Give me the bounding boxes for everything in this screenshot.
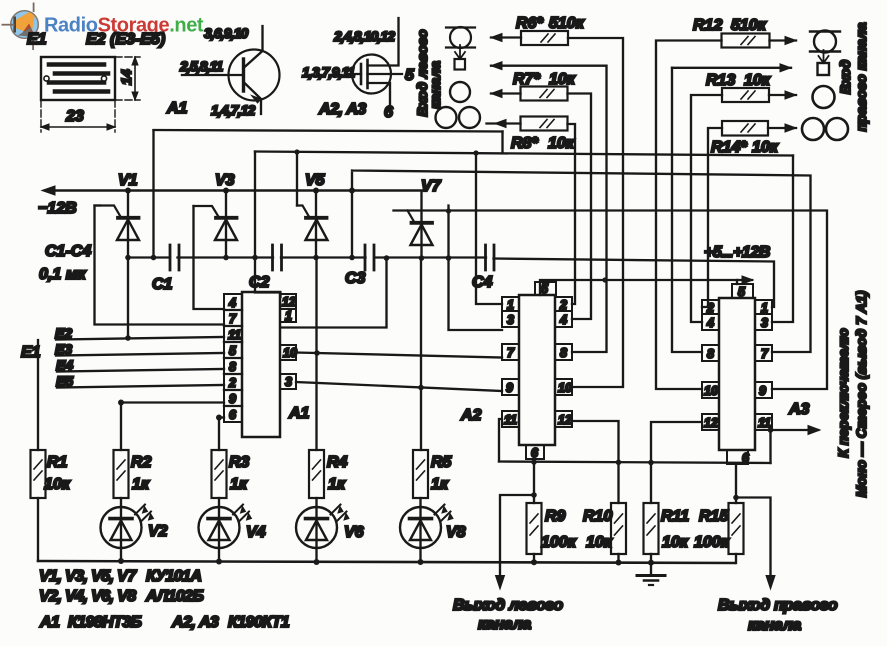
svg-text:А2: А2 bbox=[460, 407, 482, 424]
wire V5 gate up to line y151 bbox=[296, 152, 298, 206]
right input: microphone jack symbol bbox=[814, 31, 836, 53]
wire E3 to pin 5 bbox=[56, 353, 224, 356]
svg-text:R9: R9 bbox=[545, 508, 566, 525]
svg-text:V1: V1 bbox=[118, 172, 138, 189]
left input: tape recorder symbol (two circles) bbox=[436, 107, 457, 128]
wire E4 to pin 8 bbox=[57, 369, 224, 372]
A2,A3 substrate lead pin 6 bbox=[368, 83, 391, 108]
svg-text:А2, А3: А2, А3 bbox=[171, 614, 219, 631]
dimension line 23 bbox=[41, 126, 115, 128]
svg-text:R2: R2 bbox=[131, 454, 152, 471]
dimension extension lines (bottom) bbox=[41, 100, 115, 132]
svg-text:510к: 510к bbox=[549, 15, 585, 32]
resistor R7 bbox=[521, 87, 568, 101]
wire middle input left channel with arrow bbox=[491, 66, 607, 352]
svg-text:7: 7 bbox=[229, 312, 237, 326]
svg-text:С1-С4: С1-С4 bbox=[45, 243, 91, 260]
svg-text:канала: канала bbox=[748, 617, 801, 634]
svg-text:Е2 (Е3-Е5): Е2 (Е3-Е5) bbox=[86, 31, 165, 48]
svg-text:А3: А3 bbox=[788, 401, 810, 418]
wire R12 left bbox=[656, 41, 722, 390]
wire A2 pin12 to R10 bbox=[572, 421, 619, 503]
svg-text:С4: С4 bbox=[472, 274, 493, 291]
wire R14 left bbox=[702, 128, 722, 307]
svg-text:А1: А1 bbox=[39, 614, 60, 631]
svg-text:6: 6 bbox=[742, 451, 750, 465]
wire R8 right bbox=[568, 124, 576, 304]
svg-text:8: 8 bbox=[229, 360, 236, 374]
node on line y151 at V5 gate bbox=[294, 149, 299, 154]
transistor A1 collector bbox=[244, 26, 263, 68]
svg-text:1к: 1к bbox=[230, 476, 248, 493]
svg-text:канала: канала bbox=[478, 616, 531, 633]
IC A2 top pin cell 5 bbox=[535, 282, 556, 295]
right input: pickup symbol bbox=[819, 50, 829, 63]
LED V6 bbox=[296, 507, 337, 548]
svg-text:1,3,7,9,11: 1,3,7,9,11 bbox=[302, 64, 355, 80]
IC A3 top pin cell 5 bbox=[732, 284, 753, 298]
wire V3 gate from A1 pin4 bbox=[194, 206, 225, 309]
svg-text:12: 12 bbox=[704, 416, 718, 430]
svg-text:Выход левого: Выход левого bbox=[453, 597, 563, 614]
svg-text:С3: С3 bbox=[345, 270, 366, 287]
svg-text:0,1 мк: 0,1 мк bbox=[39, 266, 87, 283]
wire A1 pin 10 to A2 pin 7 bbox=[296, 353, 502, 358]
svg-text:К190КТ1: К190КТ1 bbox=[228, 614, 290, 631]
wire R7 right bbox=[568, 94, 592, 320]
IC A2 right pin cells bbox=[555, 297, 572, 311]
svg-text:4: 4 bbox=[706, 316, 714, 330]
wire H2 (-12V feed to A3 pin7) bbox=[352, 171, 811, 353]
svg-text:R11: R11 bbox=[661, 508, 689, 525]
svg-text:правого канала: правого канала bbox=[853, 22, 869, 131]
resistor R13 bbox=[722, 88, 769, 102]
svg-text:R14*: R14* bbox=[711, 139, 747, 156]
svg-text:10к: 10к bbox=[586, 534, 613, 551]
wire E2 to pin 11 bbox=[56, 337, 224, 340]
wire R8 input with arrow bbox=[487, 122, 521, 124]
svg-text:23: 23 bbox=[65, 108, 84, 125]
transistor A1 pinout circle bbox=[229, 50, 280, 101]
svg-text:V3: V3 bbox=[215, 172, 235, 189]
op-amp/IC A1 body bbox=[242, 292, 280, 437]
wire drop to A2 pin3 bbox=[449, 206, 503, 331]
LED V8 bbox=[400, 507, 441, 548]
svg-text:100к: 100к bbox=[694, 534, 730, 551]
capacitor bus wire bbox=[128, 256, 486, 258]
svg-text:R13: R13 bbox=[706, 72, 735, 89]
IC A3 right pin cells bbox=[755, 300, 772, 314]
svg-text:Выход правого: Выход правого bbox=[718, 597, 838, 614]
wire V1 gate to A1 pin11 bbox=[95, 206, 225, 325]
photoresistor terminal holes bbox=[44, 76, 49, 81]
transistor A1 base bar bbox=[242, 59, 245, 91]
A2,A3 drain lead up bbox=[368, 18, 399, 66]
svg-text:100к: 100к bbox=[541, 534, 577, 551]
svg-text:R7*: R7* bbox=[513, 71, 540, 88]
IC A2 left pin cells bbox=[502, 297, 519, 311]
dimension extension lines (right) bbox=[115, 57, 140, 100]
left input: microphone jack symbol bbox=[450, 27, 471, 48]
wire R6 right bbox=[568, 38, 623, 387]
svg-text:12: 12 bbox=[282, 295, 296, 309]
svg-text:1к: 1к bbox=[431, 476, 449, 493]
A2,A3 source lead pin 5 bbox=[368, 73, 403, 75]
svg-text:2: 2 bbox=[706, 301, 714, 315]
IC A1 right pin cells bbox=[280, 294, 296, 309]
svg-text:10к: 10к bbox=[752, 139, 779, 156]
svg-text:10к: 10к bbox=[662, 534, 689, 551]
photoresistor E1 body outline bbox=[41, 57, 115, 100]
A2,A3 gate lead bbox=[347, 73, 361, 75]
IC A2 body bbox=[519, 295, 555, 445]
svg-text:3: 3 bbox=[761, 316, 768, 330]
svg-text:А1: А1 bbox=[166, 100, 188, 117]
svg-text:10к: 10к bbox=[744, 72, 771, 89]
svg-text:2,4,8,10,12: 2,4,8,10,12 bbox=[333, 28, 395, 44]
A2,A3 channel bar bbox=[366, 60, 369, 88]
left input: pickup symbol (arrow into square) bbox=[455, 45, 465, 59]
svg-text:5: 5 bbox=[541, 282, 549, 296]
wire A1 pin1 up to C3 node bbox=[282, 258, 387, 328]
svg-text:1: 1 bbox=[285, 309, 292, 323]
svg-text:11: 11 bbox=[228, 328, 241, 342]
LED V4 bbox=[199, 507, 240, 548]
wire V1 column down to E2 line bbox=[127, 258, 129, 339]
svg-text:А2, А3: А2, А3 bbox=[318, 101, 366, 118]
svg-text:V7: V7 bbox=[421, 178, 442, 195]
svg-text:5: 5 bbox=[229, 344, 237, 358]
capacitor C1 bbox=[170, 245, 179, 270]
resistor R6 bbox=[521, 31, 568, 45]
svg-text:10: 10 bbox=[704, 384, 718, 398]
svg-text:R12: R12 bbox=[693, 17, 722, 34]
wire A1 pin 3 to A2 pin 9 bbox=[296, 382, 502, 391]
capacitor C3 bbox=[365, 245, 374, 270]
svg-text:510к: 510к bbox=[731, 17, 767, 34]
svg-text:2: 2 bbox=[559, 298, 567, 312]
wire A3 pin12 to R11 bbox=[651, 422, 702, 503]
svg-text:А1: А1 bbox=[288, 405, 310, 422]
resistor R9 bbox=[527, 503, 542, 554]
wire C4 to A3 pin1 bbox=[494, 259, 775, 308]
svg-text:R8*: R8* bbox=[511, 135, 538, 152]
svg-text:R15: R15 bbox=[699, 508, 729, 525]
svg-text:4: 4 bbox=[559, 313, 567, 327]
svg-text:1: 1 bbox=[507, 298, 514, 312]
svg-text:R1: R1 bbox=[47, 454, 68, 471]
right input: tuner circle symbol bbox=[813, 86, 835, 108]
svg-text:+5...+12В: +5...+12В bbox=[704, 244, 770, 261]
svg-text:1,4,7,12: 1,4,7,12 bbox=[211, 102, 256, 118]
node V5 on bus bbox=[313, 188, 319, 194]
wire E5 to pin 2 bbox=[57, 385, 224, 388]
svg-text:Моно — Стерео (вывод 7 А1): Моно — Стерео (вывод 7 А1) bbox=[853, 290, 869, 497]
svg-text:КУ101А: КУ101А bbox=[146, 568, 201, 585]
resistor R5 bbox=[413, 450, 428, 498]
svg-text:2,5,8,11: 2,5,8,11 bbox=[179, 58, 223, 74]
svg-text:10: 10 bbox=[558, 381, 572, 395]
wire R2 column bbox=[120, 403, 122, 508]
svg-text:2: 2 bbox=[228, 376, 236, 390]
resistor R15 bbox=[729, 503, 744, 554]
IC A3 bottom pin cell 6 bbox=[727, 450, 748, 464]
wire A2 pin6 to R9 bbox=[533, 459, 535, 503]
wire A1 pin 6 to R3 column bbox=[219, 416, 224, 418]
svg-text:V1, V3, V5, V7: V1, V3, V5, V7 bbox=[39, 568, 137, 585]
resistor R10 bbox=[611, 503, 626, 554]
capacitor C2 bbox=[273, 245, 282, 270]
svg-text:1: 1 bbox=[761, 301, 768, 315]
RadioStorage.net logo icon bbox=[2, 3, 39, 51]
IC A1 left pin cells bbox=[224, 294, 242, 422]
wire R7 left with arrow bbox=[491, 92, 521, 94]
wire drop to A2 pin1 bbox=[476, 153, 502, 304]
svg-text:R5: R5 bbox=[431, 454, 453, 471]
transistor A1 emitter with arrow bbox=[244, 82, 262, 114]
svg-text:9: 9 bbox=[759, 384, 766, 398]
svg-text:11: 11 bbox=[504, 413, 517, 427]
RadioStorage.net logo text bbox=[44, 15, 204, 37]
IC A3 left pin cells bbox=[702, 300, 719, 314]
svg-text:10к: 10к bbox=[44, 476, 71, 493]
resistor R14 bbox=[722, 121, 768, 136]
svg-text:8: 8 bbox=[707, 347, 714, 361]
wire R13 left bbox=[691, 95, 722, 322]
svg-text:9: 9 bbox=[229, 392, 236, 406]
svg-text:V2: V2 bbox=[148, 523, 168, 540]
wire middle input right channel with arrow bbox=[672, 67, 791, 69]
svg-text:1к: 1к bbox=[328, 476, 346, 493]
wire A3 pin11 to mono-stereo switch with arrow bbox=[772, 429, 818, 431]
svg-text:5: 5 bbox=[738, 285, 746, 299]
wire R6 left with arrow bbox=[491, 36, 521, 38]
ground symbol bbox=[650, 563, 652, 575]
wire node line y151 (A1 pin12 distribution) bbox=[255, 152, 793, 156]
svg-text:4: 4 bbox=[228, 296, 236, 310]
svg-text:канала: канала bbox=[427, 61, 443, 109]
left input: tuner circle symbol bbox=[450, 82, 470, 102]
photoresistor comb element bbox=[49, 65, 108, 92]
svg-text:12: 12 bbox=[558, 413, 572, 427]
wire join line131 to line151 bbox=[501, 132, 503, 153]
wire R14 right with arrow bbox=[768, 127, 796, 129]
svg-text:3: 3 bbox=[285, 375, 292, 389]
svg-text:3,6,9,10: 3,6,9,10 bbox=[204, 25, 249, 41]
svg-text:9: 9 bbox=[506, 381, 513, 395]
svg-text:С1: С1 bbox=[152, 276, 173, 293]
wire R13 right with arrow bbox=[769, 94, 796, 96]
svg-text:С2: С2 bbox=[249, 274, 270, 291]
IC A3 body bbox=[719, 298, 755, 450]
common line pins 11 bbox=[499, 462, 771, 464]
node V3 on bus bbox=[223, 188, 229, 194]
svg-text:К переключателю: К переключателю bbox=[835, 328, 851, 458]
node on line y151 at A2 pin1 drop bbox=[473, 150, 478, 155]
dimension line 14 bbox=[134, 57, 136, 100]
resistor R3 bbox=[212, 450, 227, 498]
wire long line to C1 node column bbox=[154, 130, 503, 132]
transistor A2,A3 pinout circle bbox=[352, 55, 391, 94]
wire A2 pin11 down to common line bbox=[499, 419, 502, 462]
wire R12 right with arrow bbox=[770, 39, 797, 41]
svg-text:10к: 10к bbox=[548, 135, 575, 152]
wire A3 pin6 to R15 bbox=[735, 464, 737, 503]
svg-text:7: 7 bbox=[761, 347, 769, 361]
svg-text:V6: V6 bbox=[344, 524, 364, 541]
svg-text:6: 6 bbox=[229, 408, 237, 422]
svg-text:14: 14 bbox=[118, 69, 134, 85]
svg-text:10к: 10к bbox=[549, 71, 576, 88]
resistor R12 bbox=[722, 34, 770, 48]
wire A1 pin 9 to R2 column bbox=[121, 401, 224, 403]
svg-text:7: 7 bbox=[507, 346, 515, 360]
resistor R2 bbox=[114, 450, 129, 498]
svg-text:V4: V4 bbox=[246, 524, 266, 541]
svg-text:V5: V5 bbox=[305, 172, 326, 189]
node H2 drop on bus bbox=[349, 188, 355, 194]
svg-text:8: 8 bbox=[560, 346, 567, 360]
ground bus wire bbox=[38, 561, 735, 563]
-12V bus with left arrow bbox=[46, 189, 422, 191]
svg-text:R6*: R6* bbox=[516, 15, 543, 32]
LED V2 bbox=[101, 507, 142, 548]
svg-text:К198НТ3Б: К198НТ3Б bbox=[68, 614, 142, 631]
wire E1 down to R1 bbox=[37, 340, 39, 450]
wire from line to C1 node bbox=[152, 131, 154, 258]
wire output right channel with arrow bbox=[733, 495, 739, 501]
transistor A1 base lead bbox=[182, 74, 244, 76]
resistor R4 bbox=[309, 450, 324, 498]
svg-text:V8: V8 bbox=[446, 524, 466, 541]
svg-text:V2, V4, V6, V8: V2, V4, V6, V8 bbox=[39, 588, 136, 605]
wire output left channel with arrow bbox=[531, 492, 537, 498]
resistor R8 bbox=[521, 117, 568, 131]
wire H3 (V7 gate line to A3 pin9) bbox=[394, 211, 828, 390]
svg-text:R3: R3 bbox=[229, 454, 250, 471]
right input: tape recorder symbol bbox=[802, 118, 824, 140]
svg-text:6: 6 bbox=[384, 104, 393, 121]
svg-text:Е1: Е1 bbox=[27, 31, 47, 48]
svg-text:R10: R10 bbox=[583, 508, 612, 525]
A2,A3 gate bar bbox=[360, 64, 363, 84]
resistor R1 bbox=[31, 450, 46, 498]
svg-text:3: 3 bbox=[507, 313, 514, 327]
svg-text:АЛ102Б: АЛ102Б bbox=[145, 588, 203, 605]
nodes on capacitor wire bbox=[125, 255, 131, 261]
svg-text:R4: R4 bbox=[327, 454, 348, 471]
resistor R11 bbox=[644, 503, 659, 554]
capacitor C4 bbox=[486, 245, 495, 270]
IC A2 bottom pin cell 6 bbox=[526, 445, 544, 459]
svg-text:−12В: −12В bbox=[38, 200, 77, 217]
svg-text:1к: 1к bbox=[132, 476, 150, 493]
svg-text:Вход: Вход bbox=[837, 59, 853, 94]
node V1 on bus bbox=[125, 188, 131, 194]
